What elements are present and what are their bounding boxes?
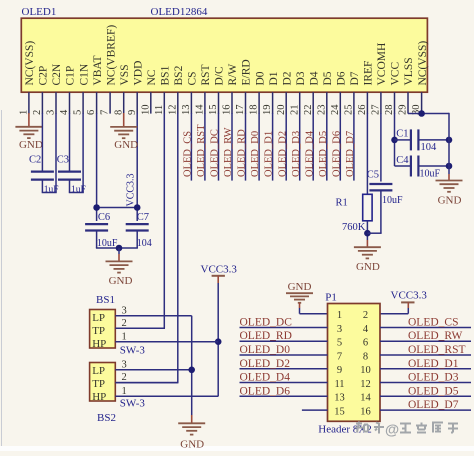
svg-text:2: 2 bbox=[122, 372, 127, 383]
svg-text:24: 24 bbox=[330, 104, 341, 115]
wire pin28 VCC down bbox=[394, 113, 396, 166]
svg-text:15: 15 bbox=[208, 105, 219, 116]
junction C4 right rail bbox=[446, 163, 453, 170]
pin 20 D2 stub bbox=[285, 92, 287, 113]
svg-text:3: 3 bbox=[122, 359, 127, 370]
wire P1 left row 5 net OLED_RD bbox=[240, 340, 328, 342]
pin 4 C1P stub bbox=[69, 92, 71, 113]
svg-text:2: 2 bbox=[363, 310, 368, 321]
wire pin 20 stub for net OLED_D2 bbox=[285, 113, 287, 181]
wire VCC3.3 down to switches bbox=[217, 283, 219, 396]
svg-text:26: 26 bbox=[357, 105, 368, 116]
capacitor C5 bbox=[369, 183, 392, 185]
svg-text:28: 28 bbox=[384, 105, 395, 116]
resistor R1 bbox=[363, 194, 372, 221]
switch BS2 body bbox=[90, 363, 116, 402]
wire pin 23 stub for net OLED_D5 bbox=[326, 113, 328, 181]
svg-text:VCC: VCC bbox=[390, 62, 402, 86]
svg-text:OLED_D6: OLED_D6 bbox=[240, 385, 291, 397]
svg-text:7: 7 bbox=[337, 351, 342, 362]
switch BS1 body bbox=[90, 310, 116, 349]
svg-text:SW-3: SW-3 bbox=[120, 345, 146, 357]
pin 17 E/RD stub bbox=[245, 92, 247, 113]
pin 18 D0 stub bbox=[258, 92, 260, 113]
svg-text:25: 25 bbox=[344, 105, 355, 116]
wire P1 left row 13 net OLED_D6 bbox=[240, 395, 328, 397]
BS2 pin 3 wire bbox=[115, 369, 191, 371]
svg-text:C5: C5 bbox=[367, 170, 379, 181]
wire C3 bottom to pin5 bbox=[69, 180, 71, 193]
capacitor C4 bbox=[410, 156, 412, 177]
svg-text:OLED_D6: OLED_D6 bbox=[331, 131, 342, 177]
svg-text:8: 8 bbox=[113, 110, 124, 115]
svg-text:OLED_CS: OLED_CS bbox=[183, 131, 194, 177]
pin 16 R/W stub bbox=[231, 92, 233, 113]
wire P1 left row 9 net OLED_D2 bbox=[240, 368, 328, 370]
wire pin1 to ground bbox=[28, 113, 30, 127]
svg-text:1uF: 1uF bbox=[71, 185, 86, 195]
svg-text:3: 3 bbox=[122, 305, 127, 316]
svg-text:CS: CS bbox=[187, 71, 199, 85]
svg-text:VLSS: VLSS bbox=[403, 57, 415, 85]
svg-text:GND: GND bbox=[438, 194, 462, 206]
svg-text:OLED_D5: OLED_D5 bbox=[408, 385, 459, 397]
svg-text:5: 5 bbox=[73, 110, 84, 115]
pin 10 NC stub bbox=[150, 92, 152, 113]
BS1 pin 1 wire bbox=[115, 341, 218, 343]
junction VCC at BS1 HP bbox=[215, 338, 222, 345]
svg-text:1: 1 bbox=[122, 386, 127, 397]
svg-text:OLED12864: OLED12864 bbox=[151, 6, 208, 18]
svg-text:6: 6 bbox=[86, 110, 97, 115]
svg-text:C1: C1 bbox=[396, 129, 408, 140]
svg-text:GND: GND bbox=[288, 281, 312, 293]
svg-text:4: 4 bbox=[363, 324, 369, 335]
svg-text:GND: GND bbox=[19, 139, 43, 151]
pin 9 VDD stub bbox=[136, 92, 138, 113]
svg-text:C2: C2 bbox=[29, 155, 41, 166]
pin 27 VCOMH stub bbox=[380, 92, 382, 113]
svg-text:OLED_DC: OLED_DC bbox=[240, 317, 293, 329]
svg-text:OLED_RD: OLED_RD bbox=[240, 330, 292, 342]
svg-text:8: 8 bbox=[363, 351, 368, 362]
wire pin 25 stub for net OLED_D7 bbox=[353, 113, 355, 181]
junction at pin9 rail bbox=[134, 204, 141, 211]
pin 15 D/C stub bbox=[218, 92, 220, 113]
svg-text:OLED_D3: OLED_D3 bbox=[291, 131, 302, 177]
wire pin12 BS2 down bbox=[177, 113, 179, 383]
svg-text:VCC3.3: VCC3.3 bbox=[391, 290, 428, 302]
wire C6-C7 bottom tie bbox=[96, 247, 138, 249]
svg-text:GND: GND bbox=[109, 275, 133, 287]
wire P1 right row 4 net OLED_CS bbox=[380, 327, 471, 329]
pin 14 RST stub bbox=[204, 92, 206, 113]
svg-text:D0: D0 bbox=[254, 71, 266, 85]
svg-text:VSS: VSS bbox=[119, 64, 131, 85]
junction C1 tap bbox=[391, 137, 398, 144]
svg-text:NC(VSS): NC(VSS) bbox=[417, 41, 429, 86]
capacitor C7 bbox=[126, 223, 149, 225]
wire pin26 IREF down to R1 bbox=[366, 113, 368, 194]
svg-text:D/C: D/C bbox=[214, 66, 226, 86]
svg-text:10uF: 10uF bbox=[382, 195, 403, 206]
wire C1 left stub bbox=[395, 139, 411, 141]
svg-text:BS2: BS2 bbox=[173, 65, 185, 85]
svg-text:OLED_D5: OLED_D5 bbox=[318, 131, 329, 177]
wire pin27 VCOMH down to C5 bbox=[380, 113, 382, 182]
pin 3 C2N stub bbox=[55, 92, 57, 113]
wire down to ground bbox=[118, 248, 120, 254]
svg-text:C6: C6 bbox=[98, 212, 110, 223]
svg-text:7: 7 bbox=[100, 110, 111, 115]
wire P1 right row 6 net OLED_RW bbox=[380, 340, 471, 342]
pin 30 NC(VSS) stub bbox=[421, 92, 423, 113]
wire pin2 down to C2 bbox=[41, 113, 43, 172]
svg-text:104: 104 bbox=[137, 238, 152, 249]
wire pin 16 stub for net OLED_RW bbox=[231, 113, 233, 181]
wire P1 right row 16 net OLED_D7 bbox=[380, 409, 471, 411]
pin 22 D4 stub bbox=[312, 92, 314, 113]
svg-text:17: 17 bbox=[235, 105, 246, 116]
svg-text:9: 9 bbox=[127, 110, 138, 115]
svg-text:GND: GND bbox=[180, 439, 204, 451]
svg-text:@: @ bbox=[385, 423, 399, 439]
svg-text:11: 11 bbox=[334, 379, 344, 390]
svg-text:LP: LP bbox=[92, 365, 105, 377]
wire P1 right row 12 net OLED_D3 bbox=[380, 382, 471, 384]
capacitor C6 bbox=[85, 223, 108, 225]
svg-text:1: 1 bbox=[122, 331, 127, 342]
pin 8 VSS stub bbox=[123, 92, 125, 113]
pin 23 D5 stub bbox=[326, 92, 328, 113]
wire P1 pin1 to ground bbox=[299, 308, 301, 314]
svg-text:1: 1 bbox=[337, 310, 342, 321]
wire P1 pin15 stub bbox=[302, 409, 328, 411]
svg-text:OLED_RD: OLED_RD bbox=[237, 129, 248, 177]
ground GND under pin1 bbox=[15, 126, 42, 128]
svg-text:15: 15 bbox=[334, 406, 345, 417]
svg-text:14: 14 bbox=[195, 104, 206, 115]
svg-text:13: 13 bbox=[334, 393, 345, 404]
svg-text:TP: TP bbox=[92, 325, 105, 337]
svg-text:IREF: IREF bbox=[363, 61, 375, 86]
svg-text:23: 23 bbox=[316, 105, 327, 116]
svg-text:3: 3 bbox=[337, 324, 342, 335]
wire P1 right row 10 net OLED_D1 bbox=[380, 368, 471, 370]
svg-text:OLED_DC: OLED_DC bbox=[210, 129, 221, 177]
svg-text:OLED_CS: OLED_CS bbox=[408, 317, 458, 329]
capacitor C3 bbox=[58, 171, 81, 173]
wire right rail down bbox=[448, 113, 450, 174]
svg-text:OLED_D2: OLED_D2 bbox=[240, 358, 291, 370]
wire C1 right stub bbox=[419, 139, 449, 141]
svg-text:D3: D3 bbox=[295, 71, 307, 85]
svg-text:C1N: C1N bbox=[78, 63, 90, 85]
svg-text:C2P: C2P bbox=[38, 66, 50, 86]
pin 12 BS2 stub bbox=[177, 92, 179, 113]
capacitor C1 bbox=[410, 129, 412, 150]
svg-text:OLED_D7: OLED_D7 bbox=[345, 131, 356, 177]
svg-text:29: 29 bbox=[398, 105, 409, 116]
wire pin 24 stub for net OLED_D6 bbox=[339, 113, 341, 181]
svg-text:R/W: R/W bbox=[227, 64, 239, 86]
svg-text:D5: D5 bbox=[322, 71, 334, 85]
svg-text:C1P: C1P bbox=[65, 66, 77, 86]
pin 1 NC(VSS) stub bbox=[28, 92, 30, 113]
junction BS2 LP to ground rail bbox=[188, 367, 195, 374]
svg-text:P1: P1 bbox=[325, 292, 337, 304]
wire P1 left row 3 net OLED_DC bbox=[240, 327, 328, 329]
svg-text:E/RD: E/RD bbox=[241, 59, 253, 85]
pin 11 BS1 stub bbox=[163, 92, 165, 113]
svg-text:D7: D7 bbox=[349, 71, 361, 85]
pin 19 D1 stub bbox=[272, 92, 274, 113]
svg-text:12: 12 bbox=[360, 379, 371, 390]
svg-text:C3: C3 bbox=[57, 155, 69, 166]
capacitor C2 bbox=[31, 171, 54, 173]
pin 28 VCC stub bbox=[394, 92, 396, 113]
wire P1 left row 11 net OLED_D4 bbox=[240, 382, 328, 384]
svg-text:5: 5 bbox=[337, 338, 342, 349]
BS2 pin 2 wire bbox=[115, 382, 178, 384]
svg-text:OLED_D4: OLED_D4 bbox=[304, 130, 315, 177]
svg-text:BS1: BS1 bbox=[160, 65, 172, 85]
svg-text:OLED_RW: OLED_RW bbox=[223, 127, 234, 177]
svg-text:R1: R1 bbox=[336, 197, 348, 208]
wire C6 bottom bbox=[96, 231, 98, 249]
svg-text:OLED_RW: OLED_RW bbox=[408, 330, 462, 342]
pin 25 D7 stub bbox=[353, 92, 355, 113]
svg-text:1uF: 1uF bbox=[44, 185, 59, 195]
svg-text:OLED_D7: OLED_D7 bbox=[408, 399, 459, 411]
svg-text:10: 10 bbox=[360, 365, 371, 376]
svg-text:NC(VBREF): NC(VBREF) bbox=[105, 25, 117, 86]
svg-text:9: 9 bbox=[337, 365, 342, 376]
svg-text:LP: LP bbox=[92, 312, 105, 324]
svg-text:HP: HP bbox=[92, 338, 106, 350]
svg-text:C4: C4 bbox=[396, 155, 409, 166]
wire pin3 down bbox=[55, 113, 57, 193]
ground GND right rail bbox=[436, 180, 463, 182]
wire C2 bottom to pin3 bbox=[41, 180, 43, 193]
wire pin5 down bbox=[82, 113, 84, 193]
svg-text:760K: 760K bbox=[342, 222, 366, 233]
wire pin 22 stub for net OLED_D4 bbox=[312, 113, 314, 181]
svg-text:VCOMH: VCOMH bbox=[376, 43, 388, 86]
wire P1 pin2 to VCC3.3 bbox=[407, 308, 409, 314]
ground GND under R1 bbox=[354, 246, 381, 248]
svg-text:C7: C7 bbox=[137, 212, 149, 223]
junction at pin6 rail bbox=[93, 204, 100, 211]
svg-text:VCC3.3: VCC3.3 bbox=[125, 173, 136, 206]
svg-text:104: 104 bbox=[421, 142, 438, 153]
svg-text:27: 27 bbox=[371, 105, 382, 116]
ground GND under C6 C7 bbox=[106, 260, 133, 262]
svg-text:22: 22 bbox=[303, 105, 314, 116]
svg-text:OLED1: OLED1 bbox=[22, 6, 57, 18]
wire pin 15 stub for net OLED_DC bbox=[218, 113, 220, 181]
wire pin11 BS1 down bbox=[163, 113, 165, 328]
svg-text:14: 14 bbox=[360, 393, 371, 404]
ground GND under switches bbox=[178, 422, 205, 424]
svg-text:GND: GND bbox=[356, 261, 380, 273]
svg-text:16: 16 bbox=[360, 406, 371, 417]
watermark zhihu bbox=[356, 423, 362, 425]
svg-text:OLED_D1: OLED_D1 bbox=[264, 131, 275, 177]
svg-text:10: 10 bbox=[140, 105, 151, 116]
svg-text:OLED_RST: OLED_RST bbox=[196, 124, 207, 177]
wire C5 bottom to ground node bbox=[380, 190, 382, 233]
svg-text:18: 18 bbox=[249, 105, 260, 116]
junction at ground drop bbox=[116, 245, 123, 252]
svg-text:NC: NC bbox=[146, 69, 158, 85]
wire pin29 VLSS corner bbox=[408, 113, 449, 115]
wire ground rail of switches bbox=[191, 316, 193, 415]
svg-text:OLED_D1: OLED_D1 bbox=[408, 358, 459, 370]
wire R1 bottom bbox=[366, 221, 368, 240]
svg-text:OLED_D0: OLED_D0 bbox=[240, 344, 291, 356]
junction R1/C5 ground node bbox=[364, 230, 371, 237]
wire pin 19 stub for net OLED_D1 bbox=[272, 113, 274, 181]
svg-text:BS1: BS1 bbox=[96, 294, 115, 306]
wire pin 13 stub for net OLED_CS bbox=[190, 113, 192, 181]
svg-text:VBAT: VBAT bbox=[92, 55, 104, 85]
wire VBAT-VDD tie bbox=[97, 207, 138, 209]
wire pin 18 stub for net OLED_D0 bbox=[258, 113, 260, 181]
svg-text:D1: D1 bbox=[268, 71, 280, 85]
wire pin 14 stub for net OLED_RST bbox=[204, 113, 206, 181]
wire P1 right row 14 net OLED_D5 bbox=[380, 395, 471, 397]
pin 29 VLSS stub bbox=[407, 92, 409, 113]
wire pin8 VSS to ground bbox=[123, 113, 125, 127]
wire pin9 VDD down bbox=[136, 113, 138, 221]
IC U-OLED1 OLED12864 body bbox=[21, 18, 427, 92]
pin 24 D6 stub bbox=[339, 92, 341, 113]
wire C4 right stub bbox=[419, 165, 449, 167]
svg-text:21: 21 bbox=[289, 105, 300, 116]
pin 13 CS stub bbox=[190, 92, 192, 113]
pin 5 C1N stub bbox=[82, 92, 84, 113]
wire pin4 down to C3 bbox=[69, 113, 71, 172]
svg-text:D4: D4 bbox=[308, 71, 320, 85]
wire P1 left row 7 net OLED_D0 bbox=[240, 354, 328, 356]
svg-text:OLED_D3: OLED_D3 bbox=[408, 372, 459, 384]
svg-text:13: 13 bbox=[181, 105, 192, 116]
wire P1 right row 8 net OLED_RST bbox=[380, 354, 471, 356]
wire pin 21 stub for net OLED_D3 bbox=[299, 113, 301, 181]
pin 21 D3 stub bbox=[299, 92, 301, 113]
pin 2 C2P stub bbox=[41, 92, 43, 113]
svg-text:NC(VSS): NC(VSS) bbox=[24, 41, 36, 86]
BS1 pin 2 wire bbox=[115, 327, 164, 329]
junction C1 right rail bbox=[446, 137, 453, 144]
wire C4 left stub bbox=[395, 165, 411, 167]
pin 6 VBAT stub bbox=[96, 92, 98, 113]
svg-text:D6: D6 bbox=[336, 71, 348, 85]
svg-text:C2N: C2N bbox=[51, 63, 63, 85]
pin 26 IREF stub bbox=[366, 92, 368, 113]
svg-text:2: 2 bbox=[122, 318, 127, 329]
svg-text:HP: HP bbox=[92, 391, 106, 403]
svg-text:BS2: BS2 bbox=[97, 412, 116, 424]
svg-text:4: 4 bbox=[59, 109, 70, 115]
wire C7 bottom bbox=[136, 231, 138, 249]
svg-text:6: 6 bbox=[363, 338, 368, 349]
svg-text:16: 16 bbox=[222, 105, 233, 116]
svg-text:10uF: 10uF bbox=[420, 169, 441, 180]
svg-text:2: 2 bbox=[32, 110, 43, 115]
svg-text:OLED_D4: OLED_D4 bbox=[240, 372, 291, 384]
connector P1 body bbox=[328, 304, 381, 422]
wire pin6 VBAT down bbox=[96, 113, 98, 221]
svg-text:OLED_D0: OLED_D0 bbox=[250, 131, 261, 177]
svg-text:TP: TP bbox=[92, 378, 105, 390]
svg-text:VDD: VDD bbox=[132, 61, 144, 86]
svg-text:20: 20 bbox=[276, 105, 287, 116]
svg-text:OLED_D2: OLED_D2 bbox=[277, 131, 288, 177]
svg-text:RST: RST bbox=[200, 64, 212, 85]
svg-text:1: 1 bbox=[19, 110, 30, 115]
svg-text:GND: GND bbox=[114, 139, 138, 151]
junction pin30 tie bbox=[418, 110, 425, 117]
pin 7 NC(VBREF) stub bbox=[109, 92, 111, 113]
svg-text:19: 19 bbox=[262, 105, 273, 116]
svg-text:12: 12 bbox=[167, 105, 178, 116]
svg-text:SW-3: SW-3 bbox=[120, 397, 146, 409]
svg-text:11: 11 bbox=[154, 105, 165, 115]
svg-text:VCC3.3: VCC3.3 bbox=[201, 264, 238, 276]
wire pin 17 stub for net OLED_RD bbox=[245, 113, 247, 181]
svg-text:OLED_RST: OLED_RST bbox=[408, 344, 466, 356]
svg-text:D2: D2 bbox=[281, 71, 293, 85]
ground GND under pin8 bbox=[110, 126, 137, 128]
svg-text:3: 3 bbox=[46, 110, 57, 115]
BS2 pin 1 wire bbox=[115, 395, 218, 397]
BS1 pin 3 wire bbox=[115, 315, 191, 317]
